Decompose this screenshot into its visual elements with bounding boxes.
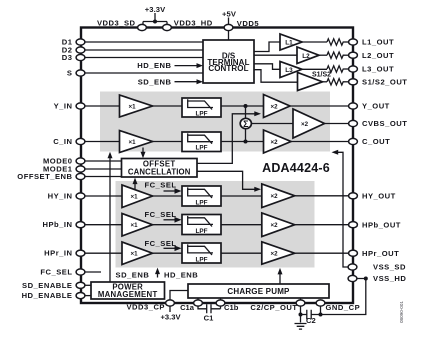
wire D1: [85, 41, 203, 43]
svg-text:×2: ×2: [270, 193, 278, 200]
wire LPF3 to x2 HY: [221, 195, 262, 197]
wire A8 to LPF4: [153, 224, 183, 226]
pin FC_SEL: [76, 269, 85, 275]
wire A7 to HY_OUT: [295, 195, 349, 197]
svg-text:FC_SEL: FC_SEL: [40, 268, 72, 277]
wire C_IN: [85, 141, 120, 143]
wire HPr_IN: [85, 252, 122, 254]
wire FC_SEL stub: [85, 271, 101, 273]
pin MODE1: [76, 166, 85, 172]
pin L1_OUT: [349, 39, 358, 45]
pin VDD5: [224, 24, 233, 30]
svg-text:CHARGE PUMP: CHARGE PUMP: [227, 287, 290, 296]
svg-text:MANAGEMENT: MANAGEMENT: [98, 290, 158, 299]
wire A3 to Y_OUT: [290, 105, 349, 107]
svg-text:L1: L1: [285, 40, 293, 47]
resistor R2: [327, 52, 345, 58]
svg-text:HPb_IN: HPb_IN: [42, 220, 72, 229]
svg-text:L3: L3: [285, 67, 293, 74]
op-amp A8 x1 HPb: [122, 214, 153, 237]
pin OFFSET_ENB: [76, 173, 85, 179]
filter LPF4 HPb: [182, 215, 221, 235]
capacitor C2: [301, 314, 321, 316]
wire L1 out: [302, 41, 327, 43]
wire A9 to HPb_OUT: [295, 224, 349, 226]
svg-text:HPr_IN: HPr_IN: [44, 249, 72, 258]
svg-text:HY_IN: HY_IN: [48, 192, 73, 201]
wire A10 to LPF5: [153, 252, 183, 254]
pin GND_CP: [316, 300, 325, 306]
svg-text:C2: C2: [306, 316, 316, 325]
pin HPb_OUT: [349, 222, 358, 228]
svg-text:SD_ENB: SD_ENB: [138, 77, 172, 86]
op-amp A1 x1 Y: [120, 95, 153, 117]
svg-text:Σ: Σ: [243, 119, 249, 129]
wire HPb_IN: [85, 224, 122, 226]
svg-text:C2/CP_OUT: C2/CP_OUT: [250, 303, 297, 312]
filter LPF2 C: [182, 132, 221, 152]
svg-text:×1: ×1: [130, 251, 138, 258]
op-amp A3 x2 Y: [264, 95, 291, 118]
pin L3_OUT: [349, 66, 358, 72]
pin Y_OUT: [349, 103, 358, 109]
svg-text:HD_ENB: HD_ENB: [164, 271, 198, 280]
pin D3: [76, 54, 85, 60]
wire OFFSET_ENB: [85, 176, 122, 178]
wire C2/CP_OUT stub: [300, 298, 302, 300]
wire FC_SEL arrow 3: [164, 247, 176, 249]
svg-text:SD_ENABLE: SD_ENABLE: [22, 281, 73, 290]
wire LPF5 to x2 HPr: [221, 252, 262, 254]
pin C1b: [216, 300, 225, 306]
svg-text:FC_SEL: FC_SEL: [144, 239, 176, 248]
wire +3.3V drop: [143, 13, 167, 25]
svg-text:SD_ENB: SD_ENB: [116, 271, 150, 280]
pin HPb_IN: [76, 222, 85, 228]
pin HD_ENABLE: [76, 293, 85, 299]
svg-text:LPF: LPF: [195, 199, 207, 206]
svg-text:C_OUT: C_OUT: [362, 137, 390, 146]
svg-text:C1a: C1a: [180, 303, 195, 312]
op-amp U3 power management box: [91, 282, 165, 299]
wire C1b stub: [220, 298, 222, 300]
capacitor C1: [198, 306, 221, 309]
chip outline: [81, 28, 353, 304]
wire MODE0: [85, 160, 122, 162]
pin C_OUT: [349, 138, 358, 144]
svg-text:CONTROL: CONTROL: [208, 64, 248, 73]
pin HPr_IN: [76, 250, 85, 256]
wire C2/CP_OUT down: [300, 306, 302, 322]
filter LPF3 HY: [182, 186, 221, 206]
pin C_IN: [76, 138, 85, 144]
wire VDD3_CP to charge pump: [170, 291, 188, 301]
svg-text:LPF: LPF: [195, 228, 207, 235]
wire D2: [85, 49, 203, 51]
wire VSS_SD to SD section arrow: [338, 152, 349, 267]
pin S: [76, 70, 85, 76]
wire VDD3_CP supply: [169, 306, 171, 312]
svg-text:HY_OUT: HY_OUT: [362, 192, 396, 201]
op-amp A7 x2 HY: [262, 184, 295, 208]
node +3.3V junction: [153, 20, 157, 24]
wire L2 out: [319, 54, 327, 56]
pin VDD3_HD: [163, 24, 172, 30]
pin CVBS_OUT: [349, 120, 358, 126]
wire A4 to CVBS_OUT: [325, 123, 349, 125]
resistor R1: [327, 39, 345, 45]
svg-text:×1: ×1: [130, 193, 138, 200]
wire GND_CP down: [320, 306, 322, 314]
wire summer to C junction: [245, 129, 247, 142]
op-amp L3: [280, 62, 302, 78]
svg-text:VDD5: VDD5: [237, 19, 260, 28]
node VSS_HD junction: [364, 277, 368, 281]
svg-text:08090-001: 08090-001: [399, 301, 404, 323]
pin S1/S2_OUT: [349, 79, 358, 85]
pin D1: [76, 39, 85, 45]
op-amp A2 x1 C: [120, 131, 153, 153]
svg-text:L1_OUT: L1_OUT: [362, 38, 394, 47]
pin VSS_HD: [348, 275, 357, 281]
wire HY_IN: [85, 195, 122, 197]
op-amp A11 x2 HPr: [262, 242, 295, 264]
pin HY_IN: [76, 193, 85, 199]
node C2 junction right: [319, 313, 323, 317]
op-amp S1/S2: [298, 73, 323, 91]
filter LPF1 Y: [182, 98, 221, 117]
op-amp A9 x2 HPb: [262, 213, 295, 237]
svg-text:×2: ×2: [301, 121, 309, 128]
wire R2 to pin: [345, 54, 349, 56]
resistor R4: [327, 79, 345, 85]
wire power management to SD section arrow: [109, 157, 111, 283]
wire control to L2: [254, 54, 297, 56]
svg-text:L2_OUT: L2_OUT: [362, 51, 394, 60]
svg-text:HPb_OUT: HPb_OUT: [362, 220, 401, 229]
pin D2: [76, 47, 85, 53]
svg-text:VDD3_HD: VDD3_HD: [174, 19, 213, 28]
svg-text:LPF: LPF: [195, 110, 207, 117]
SD video section shading: [100, 92, 330, 152]
pin VDD3_CP: [166, 300, 175, 306]
op-amp L1: [280, 34, 302, 50]
summer node sigma: [240, 118, 251, 128]
wire C1a stub: [197, 298, 199, 300]
wire A11 to HPr_OUT: [295, 252, 349, 254]
wire VDD5 to D/S control: [228, 31, 230, 40]
svg-text:OFFSET_ENB: OFFSET_ENB: [17, 172, 72, 181]
wire HY amp to offset box arrow: [134, 183, 136, 190]
op-amp U2 offset cancellation box: [122, 159, 198, 178]
svg-text:×1: ×1: [128, 103, 136, 110]
wire summer to CVBS amp: [251, 123, 293, 125]
svg-text:L3_OUT: L3_OUT: [362, 65, 394, 74]
svg-text:C_IN: C_IN: [53, 137, 72, 146]
svg-text:×1: ×1: [130, 222, 138, 229]
wire L3 out: [302, 68, 327, 70]
svg-text:VDD3_SD: VDD3_SD: [97, 18, 136, 27]
wire SD_ENB HD_ENB arrow up: [157, 273, 159, 278]
svg-text:LPF: LPF: [195, 256, 207, 263]
wire offset box to HY x2 amp: [197, 171, 255, 189]
op-amp U-DS D/S terminal control box: [203, 40, 254, 83]
svg-text:D3: D3: [62, 53, 73, 62]
svg-text:ADA4424-6: ADA4424-6: [262, 161, 330, 175]
wire R1 to pin: [345, 41, 349, 43]
svg-text:GND_CP: GND_CP: [326, 303, 361, 312]
wire FC_SEL arrow 1: [164, 190, 176, 192]
op-amp U4 charge pump box: [188, 284, 329, 298]
op-amp A4 x2 CVBS: [293, 109, 325, 138]
op-amp A6 x1 HY: [122, 185, 153, 208]
pin C2/CP_OUT: [296, 300, 305, 306]
svg-text:HPr_OUT: HPr_OUT: [362, 249, 399, 258]
wire A2 to LPF2: [153, 141, 183, 143]
wire SD_ENABLE: [85, 284, 91, 286]
pin Y_IN: [76, 103, 85, 109]
svg-text:VSS_HD: VSS_HD: [373, 274, 406, 283]
svg-text:C1b: C1b: [224, 303, 239, 312]
op-amp L2: [297, 47, 319, 64]
node C2 junction left: [299, 313, 303, 317]
svg-text:LPF: LPF: [195, 145, 207, 152]
wire offset box to Y x2 amp: [197, 114, 255, 164]
node C junction: [244, 140, 248, 144]
pin C1a: [194, 300, 203, 306]
pin SD_ENABLE: [76, 282, 85, 288]
wire LPF1 to x2 Y: [221, 105, 264, 107]
wire charge pump to HD section arrow: [279, 273, 281, 284]
pin VDD3_SD: [138, 24, 147, 30]
svg-text:CVBS_OUT: CVBS_OUT: [362, 119, 407, 128]
wire A1 to LPF1: [153, 105, 183, 107]
svg-text:+3.3V: +3.3V: [145, 5, 166, 14]
svg-text:×2: ×2: [270, 251, 278, 258]
wire +5V drop: [228, 18, 230, 25]
wire VSS_HD to GND_CP: [321, 279, 366, 315]
svg-text:FC_SEL: FC_SEL: [144, 181, 176, 190]
wire S: [85, 72, 203, 74]
wire control to L3: [254, 64, 280, 70]
svg-text:S: S: [67, 69, 73, 78]
wire SD_ENB arrow into control: [175, 81, 198, 83]
wire LPF4 to x2 HPb: [221, 224, 262, 226]
svg-text:VSS_SD: VSS_SD: [373, 263, 406, 272]
wire HD_ENB arrow into control: [175, 65, 198, 67]
svg-text:+5V: +5V: [222, 10, 237, 19]
wire A5 to C_OUT: [291, 141, 349, 143]
pin VSS_SD: [348, 264, 357, 270]
svg-text:VDD3_CP: VDD3_CP: [126, 303, 165, 312]
filter LPF5 HPr: [182, 243, 221, 263]
svg-text:Y_IN: Y_IN: [54, 102, 73, 111]
wire HD_ENABLE: [85, 295, 91, 297]
svg-text:Y_OUT: Y_OUT: [362, 102, 390, 111]
svg-text:×2: ×2: [270, 103, 278, 110]
svg-text:+3.3V: +3.3V: [160, 313, 181, 322]
pin MODE0: [76, 158, 85, 164]
wire LPF2 to x2 C: [221, 141, 264, 143]
pin HY_OUT: [349, 193, 358, 199]
svg-text:S1/S2_OUT: S1/S2_OUT: [362, 78, 407, 87]
ground: [295, 324, 307, 330]
svg-text:L2: L2: [302, 53, 310, 60]
svg-text:×1: ×1: [128, 139, 136, 146]
pin L2_OUT: [349, 52, 358, 58]
wire Y_IN: [85, 105, 120, 107]
svg-text:×2: ×2: [270, 222, 278, 229]
pin HPr_OUT: [349, 250, 358, 256]
svg-text:HD_ENABLE: HD_ENABLE: [22, 291, 73, 300]
op-amp A5 x2 C: [264, 130, 292, 153]
wire A6 to LPF3: [153, 195, 183, 197]
wire R4 to pin: [345, 81, 349, 83]
node Y junction: [244, 104, 248, 108]
wire control to S1/S2: [254, 70, 298, 83]
wire R3 to pin: [345, 68, 349, 70]
svg-text:C1: C1: [204, 314, 214, 323]
wire control to L1: [254, 42, 280, 52]
op-amp A10 x1 HPr: [122, 242, 153, 265]
svg-text:×2: ×2: [270, 139, 278, 146]
svg-text:CANCELLATION: CANCELLATION: [128, 168, 191, 177]
wire C amp to offset box arrow: [142, 148, 144, 154]
wire FC_SEL arrow 2: [164, 219, 176, 221]
HD video section shading: [116, 181, 315, 268]
svg-text:HD_ENB: HD_ENB: [137, 61, 171, 70]
svg-text:FC_SEL: FC_SEL: [144, 210, 176, 219]
wire D3: [85, 57, 203, 59]
wire S1/S2 out: [323, 81, 328, 83]
resistor R3: [327, 66, 345, 72]
wire Y junction to summer: [245, 106, 247, 118]
wire MODE1: [85, 168, 122, 170]
